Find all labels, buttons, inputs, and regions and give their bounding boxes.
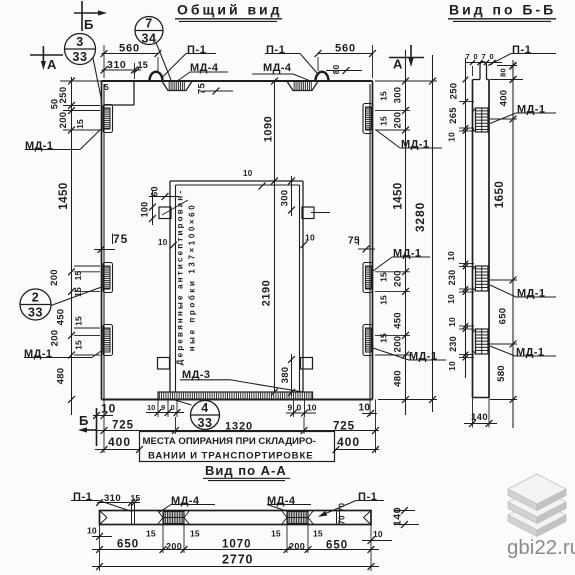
svg-text:15: 15 bbox=[379, 295, 389, 305]
dim 450 left bbox=[56, 309, 67, 326]
B-B dim 265 bbox=[448, 107, 459, 124]
A-A label MD-4 right bbox=[267, 495, 311, 512]
loop P-1 right bbox=[316, 72, 329, 81]
svg-text:580: 580 bbox=[496, 365, 507, 382]
dim 560 right bbox=[315, 43, 376, 79]
svg-text:480: 480 bbox=[56, 368, 67, 385]
B-B dim 1650 bbox=[494, 181, 506, 209]
section marker A right bbox=[389, 45, 424, 72]
dim 200 right a bbox=[393, 112, 404, 129]
dim 400 left bbox=[95, 435, 143, 453]
B-B label MD-1 2 bbox=[490, 285, 556, 300]
panel left edge bbox=[102, 81, 105, 400]
dim 50 left bbox=[50, 99, 60, 109]
svg-text:100: 100 bbox=[140, 202, 150, 218]
dims 15 left bbox=[73, 119, 85, 350]
svg-text:МД-1: МД-1 bbox=[517, 288, 545, 300]
MD-4 block right bbox=[287, 81, 318, 90]
wooden plug top-right bbox=[302, 207, 314, 219]
section marker B top bbox=[74, 1, 107, 32]
svg-text:1450: 1450 bbox=[58, 182, 70, 210]
svg-text:1090: 1090 bbox=[263, 116, 275, 142]
dim 1090 bbox=[263, 116, 275, 142]
dim 75 top bbox=[197, 83, 234, 95]
svg-text:0: 0 bbox=[297, 403, 302, 413]
MD-4 block left bbox=[162, 81, 192, 90]
label MD-1 right 3 bbox=[373, 348, 446, 363]
dims 9-0-10 right bbox=[286, 400, 317, 417]
svg-text:70: 70 bbox=[338, 515, 347, 525]
A-A dim line 2770 bbox=[92, 525, 379, 572]
svg-text:265: 265 bbox=[448, 107, 459, 124]
svg-text:200: 200 bbox=[49, 269, 60, 286]
dim 400 right bbox=[333, 435, 379, 453]
svg-text:15: 15 bbox=[73, 271, 83, 281]
svg-text:15: 15 bbox=[313, 529, 323, 539]
svg-text:15: 15 bbox=[146, 529, 156, 539]
label 5 step bbox=[104, 82, 109, 92]
label MD-4 left bbox=[178, 62, 228, 81]
B-B MD-1 block 3 bbox=[473, 329, 489, 354]
svg-text:3280: 3280 bbox=[413, 202, 427, 232]
logo text gbi22.ru bbox=[507, 536, 575, 559]
svg-text:450: 450 bbox=[393, 312, 404, 329]
svg-text:15: 15 bbox=[74, 340, 84, 350]
opening top edge bbox=[170, 181, 303, 185]
B-B dim 10 b bbox=[446, 251, 456, 261]
svg-text:Вид по А-А: Вид по А-А bbox=[205, 463, 287, 478]
svg-text:10: 10 bbox=[446, 294, 456, 304]
svg-text:400: 400 bbox=[108, 435, 131, 449]
svg-text:33: 33 bbox=[73, 50, 88, 64]
svg-text:А: А bbox=[47, 57, 57, 72]
svg-text:15: 15 bbox=[379, 116, 389, 126]
svg-text:МЕСТА ОПИРАНИЯ ПРИ СКЛАДИРО-: МЕСТА ОПИРАНИЯ ПРИ СКЛАДИРО- bbox=[143, 436, 316, 447]
B-B dim 580 bbox=[496, 365, 507, 382]
label MD-1 left 3 bbox=[24, 348, 101, 360]
dim 10 opening top bbox=[243, 169, 265, 189]
svg-text:650: 650 bbox=[326, 540, 348, 552]
plug dims left bbox=[140, 186, 180, 225]
logo slab top bbox=[508, 474, 566, 511]
svg-text:34: 34 bbox=[142, 32, 157, 46]
svg-text:725: 725 bbox=[112, 420, 134, 432]
svg-text:2: 2 bbox=[32, 291, 39, 305]
B-B dim 230 b bbox=[448, 336, 458, 352]
dim 725-1320-725 line bbox=[95, 400, 379, 454]
dim 250 left bbox=[58, 86, 69, 103]
svg-text:МД-1: МД-1 bbox=[516, 347, 544, 359]
svg-text:Б: Б bbox=[79, 413, 88, 428]
B-B dim 80 bbox=[490, 62, 523, 83]
svg-text:10: 10 bbox=[447, 361, 457, 371]
wooden plug top-left bbox=[159, 207, 171, 219]
svg-text:10: 10 bbox=[446, 251, 456, 261]
A-A P-1 cut left bbox=[132, 503, 135, 525]
A-A dim 10 left bbox=[87, 526, 112, 540]
B-B dim 250 bbox=[449, 83, 460, 100]
svg-text:1650: 1650 bbox=[494, 181, 506, 209]
title Obshchiy vid bbox=[175, 2, 283, 22]
svg-text:3: 3 bbox=[76, 35, 83, 49]
A-A label P-1 left bbox=[71, 491, 132, 512]
svg-text:МД-4: МД-4 bbox=[267, 495, 296, 507]
svg-text:Б: Б bbox=[84, 17, 93, 32]
svg-text:560: 560 bbox=[335, 43, 356, 55]
dim 200 right b bbox=[393, 270, 404, 287]
B-B dim 230 a bbox=[447, 270, 457, 286]
svg-text:250: 250 bbox=[449, 83, 460, 100]
svg-text:9: 9 bbox=[161, 403, 165, 412]
svg-text:15: 15 bbox=[379, 272, 389, 282]
svg-text:МД-4: МД-4 bbox=[171, 495, 200, 507]
note derevyannye bbox=[162, 189, 197, 366]
label MD-1 left 1 bbox=[25, 129, 101, 152]
svg-text:15: 15 bbox=[138, 60, 148, 70]
section marker A left bbox=[30, 46, 63, 72]
svg-text:10: 10 bbox=[243, 169, 253, 178]
svg-text:9: 9 bbox=[288, 403, 293, 413]
dim 560 left bbox=[101, 43, 162, 79]
wooden plug bottom-right bbox=[301, 358, 313, 370]
svg-text:50: 50 bbox=[50, 99, 60, 109]
label P-1 left bbox=[163, 44, 216, 77]
B-B MD-1 block 2 bbox=[473, 266, 489, 291]
title Vid po A-A bbox=[203, 463, 290, 481]
dims 10-9-0 left bbox=[146, 400, 184, 417]
A-A label MD-4 left bbox=[159, 495, 215, 513]
loop P-1 left bbox=[150, 72, 163, 81]
svg-text:310: 310 bbox=[107, 59, 126, 71]
label MD-1 right 2 bbox=[373, 248, 430, 272]
svg-text:33: 33 bbox=[28, 306, 43, 320]
svg-text:П-1: П-1 bbox=[187, 44, 207, 56]
B-B label P-1 bbox=[488, 44, 556, 66]
panel bottom edge bbox=[102, 399, 373, 401]
support note box bbox=[140, 432, 335, 462]
svg-text:1070: 1070 bbox=[222, 539, 252, 551]
marker circle 7-34 bbox=[135, 17, 171, 81]
svg-text:Деревянные антисептирован-: Деревянные антисептирован- bbox=[176, 189, 185, 366]
svg-text:33: 33 bbox=[198, 416, 213, 430]
svg-text:10: 10 bbox=[87, 526, 97, 536]
svg-text:4: 4 bbox=[201, 401, 208, 415]
title Vid po B-B bbox=[448, 2, 556, 22]
svg-text:2770: 2770 bbox=[222, 553, 253, 567]
right dim line bbox=[375, 50, 437, 415]
opening right edge bbox=[300, 181, 304, 392]
A-A dim 140 bbox=[392, 507, 420, 528]
svg-text:Общий вид: Общий вид bbox=[177, 2, 283, 18]
svg-text:1450: 1450 bbox=[393, 182, 405, 210]
plug dims right bbox=[280, 176, 295, 216]
dim 450 right bbox=[393, 312, 404, 329]
svg-text:80: 80 bbox=[499, 68, 508, 77]
dim 10 left opening bbox=[158, 238, 177, 248]
dim 75 right bbox=[348, 236, 375, 253]
B-B dim 400 bbox=[499, 90, 510, 107]
svg-text:А: А bbox=[393, 57, 403, 72]
dim 1450 left bbox=[58, 182, 70, 210]
MD-1 left block 2 bbox=[103, 263, 113, 293]
svg-text:П-1: П-1 bbox=[512, 44, 532, 56]
svg-text:10: 10 bbox=[305, 233, 315, 243]
marker circle 2-33 bbox=[20, 287, 103, 321]
dim 300 right bbox=[393, 87, 404, 104]
svg-text:200: 200 bbox=[393, 112, 404, 129]
dim 1450 right bbox=[393, 182, 405, 210]
A-A dim 10 right bbox=[362, 529, 392, 544]
svg-text:П-1: П-1 bbox=[358, 491, 378, 503]
label MD-4 right bbox=[252, 62, 310, 81]
MD-1 left block 3 bbox=[103, 325, 113, 356]
label MD-3 bbox=[180, 369, 303, 392]
B-B MD-1 block 1 bbox=[473, 108, 489, 132]
svg-text:400: 400 bbox=[499, 90, 510, 107]
svg-text:2190: 2190 bbox=[261, 280, 273, 306]
A-A right end chamfer bbox=[364, 511, 372, 525]
B-B dim 7-0-7-0 bbox=[465, 52, 502, 76]
B-B label MD-1 3 bbox=[490, 346, 556, 359]
B-B dim 10 c bbox=[446, 294, 456, 304]
A-A left end chamfer bbox=[100, 511, 108, 525]
svg-text:10: 10 bbox=[101, 402, 116, 416]
svg-text:МД-1: МД-1 bbox=[25, 140, 53, 152]
svg-text:15: 15 bbox=[271, 529, 281, 539]
left dim line bbox=[60, 77, 102, 415]
svg-text:250: 250 bbox=[58, 86, 69, 103]
svg-text:15: 15 bbox=[379, 333, 389, 343]
MD-1 right block 3 bbox=[363, 325, 373, 356]
dim 1090-2190 line bbox=[271, 78, 278, 396]
A-A bar outline bbox=[100, 511, 372, 525]
svg-text:МД-1: МД-1 bbox=[401, 139, 429, 151]
dim 10 right opening bbox=[301, 213, 330, 248]
svg-text:450: 450 bbox=[56, 309, 67, 326]
dim 80 top right bbox=[326, 65, 362, 75]
svg-text:80: 80 bbox=[331, 65, 341, 75]
svg-text:Вид по Б-Б: Вид по Б-Б bbox=[449, 2, 556, 18]
svg-text:480: 480 bbox=[393, 370, 404, 387]
dim 480 left bbox=[56, 368, 67, 385]
logo slab bottom bbox=[508, 500, 566, 537]
A-A dim line 650-200-1070-200-650 bbox=[92, 539, 379, 553]
dim 75 left bbox=[94, 232, 128, 253]
MD-1 right block 2 bbox=[363, 263, 373, 293]
dim 200 left a bbox=[58, 112, 69, 129]
svg-text:300: 300 bbox=[280, 190, 291, 207]
svg-text:10: 10 bbox=[447, 317, 457, 327]
svg-text:МД-1: МД-1 bbox=[24, 348, 52, 360]
svg-text:15: 15 bbox=[75, 119, 85, 129]
svg-text:230: 230 bbox=[448, 336, 458, 352]
B-B body bbox=[473, 80, 490, 398]
svg-text:МД-4: МД-4 bbox=[263, 62, 292, 74]
svg-text:230: 230 bbox=[447, 270, 457, 286]
B-B dim 10 e bbox=[447, 361, 457, 371]
B-B right dim line bbox=[490, 60, 517, 428]
MD-1 right block 1 bbox=[363, 104, 373, 134]
svg-text:П-1: П-1 bbox=[266, 44, 286, 56]
svg-text:200: 200 bbox=[50, 330, 61, 347]
panel right edge bbox=[370, 81, 373, 400]
opening left edge bbox=[170, 181, 176, 392]
svg-text:60: 60 bbox=[150, 186, 160, 196]
section marker B bottom bbox=[78, 408, 97, 446]
svg-text:0: 0 bbox=[490, 52, 494, 61]
svg-text:МД-1: МД-1 bbox=[393, 248, 421, 260]
A-A MD-4 block right bbox=[282, 511, 314, 525]
marker circle 3-33 bbox=[65, 34, 102, 101]
label MD-1 right 1 bbox=[376, 130, 442, 151]
svg-text:200: 200 bbox=[393, 336, 404, 353]
svg-text:560: 560 bbox=[119, 43, 140, 55]
A-A dims 15-200-15 right bbox=[271, 525, 323, 554]
svg-text:7: 7 bbox=[482, 52, 486, 61]
A-A MD-4 block left bbox=[158, 511, 190, 525]
dim 3280 line bbox=[413, 55, 436, 412]
B-B dim 10 d bbox=[447, 317, 457, 327]
B-B left dim line bbox=[459, 58, 474, 378]
svg-text:МД-1: МД-1 bbox=[409, 351, 437, 363]
svg-text:300: 300 bbox=[393, 87, 404, 104]
panel top edge bbox=[102, 80, 373, 82]
svg-text:ные пробки 137×100×60: ные пробки 137×100×60 bbox=[188, 203, 197, 352]
svg-text:10: 10 bbox=[307, 403, 317, 413]
svg-text:7: 7 bbox=[145, 17, 152, 31]
A-A dim 310-15 bbox=[96, 493, 140, 506]
svg-text:МД-1: МД-1 bbox=[517, 104, 545, 116]
svg-text:gbi22.ru: gbi22.ru bbox=[507, 536, 575, 559]
dim 10 bottom right bbox=[359, 400, 378, 417]
logo slab middle bbox=[508, 487, 566, 524]
svg-text:0: 0 bbox=[474, 52, 478, 61]
svg-text:10: 10 bbox=[147, 403, 155, 412]
svg-text:380: 380 bbox=[280, 367, 291, 384]
B-B dim 650 bbox=[498, 308, 509, 325]
wooden plug bottom-left bbox=[158, 358, 170, 370]
B-B dim 140 bbox=[464, 398, 497, 428]
dim 200 right c bbox=[393, 336, 404, 353]
svg-text:400: 400 bbox=[337, 435, 360, 449]
svg-text:15: 15 bbox=[379, 91, 389, 101]
svg-text:10: 10 bbox=[158, 238, 168, 247]
svg-text:П-1: П-1 bbox=[73, 491, 93, 503]
top-left step bbox=[104, 81, 134, 105]
svg-text:15: 15 bbox=[190, 529, 200, 539]
svg-text:7: 7 bbox=[466, 52, 470, 61]
MD-1 left block 1 bbox=[103, 105, 113, 133]
dim 2190 bbox=[261, 280, 273, 306]
B-B dim 10 a bbox=[447, 132, 457, 142]
svg-text:75: 75 bbox=[197, 83, 208, 95]
MD-3 strip bbox=[158, 392, 313, 400]
svg-text:5: 5 bbox=[104, 82, 109, 92]
svg-text:0: 0 bbox=[171, 403, 175, 412]
svg-text:10: 10 bbox=[447, 132, 457, 142]
dim 200 left b bbox=[49, 269, 60, 286]
A-A label P-1 right bbox=[318, 491, 384, 517]
svg-text:МД-3: МД-3 bbox=[182, 369, 210, 381]
dim 10 bottom left bbox=[93, 402, 116, 419]
svg-text:200: 200 bbox=[393, 270, 404, 287]
svg-text:310: 310 bbox=[104, 493, 121, 504]
label P-1 right top bbox=[265, 44, 317, 73]
svg-text:15: 15 bbox=[131, 493, 141, 503]
svg-text:200: 200 bbox=[58, 112, 69, 129]
A-A P-1 cut right bbox=[337, 503, 347, 525]
svg-text:75: 75 bbox=[113, 232, 128, 246]
svg-text:140: 140 bbox=[471, 412, 488, 423]
dim 380 right bbox=[280, 354, 295, 396]
svg-text:ВАНИИ И ТРАНСПОРТИРОВКЕ: ВАНИИ И ТРАНСПОРТИРОВКЕ bbox=[148, 451, 314, 462]
svg-text:725: 725 bbox=[333, 421, 355, 433]
svg-text:1320: 1320 bbox=[225, 421, 253, 433]
svg-text:650: 650 bbox=[498, 308, 509, 325]
dim 480 right bbox=[393, 370, 404, 387]
dim 200 left c bbox=[50, 330, 61, 347]
svg-text:15: 15 bbox=[74, 316, 84, 326]
marker circle 4-33 bbox=[174, 400, 220, 430]
dim 310-15 left bbox=[101, 59, 148, 79]
svg-text:650: 650 bbox=[117, 539, 139, 551]
svg-text:10: 10 bbox=[359, 403, 371, 414]
B-B label MD-1 1 bbox=[490, 104, 556, 124]
svg-text:140: 140 bbox=[392, 507, 404, 526]
dims 15 right bbox=[379, 91, 389, 343]
A-A dims 15-200-15 left bbox=[146, 525, 200, 554]
B-B loop tab bbox=[480, 62, 487, 80]
